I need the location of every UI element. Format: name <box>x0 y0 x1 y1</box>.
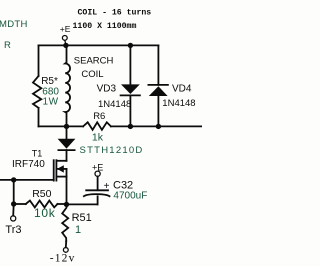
diode VD4 <box>149 86 168 96</box>
svg-text:VD4: VD4 <box>172 84 192 95</box>
diode VD3 <box>121 84 140 94</box>
svg-text:COIL - 16 turns: COIL - 16 turns <box>78 9 152 18</box>
svg-text:IRF740: IRF740 <box>12 159 45 170</box>
wire left branch upper <box>38 45 40 76</box>
node source junction <box>64 202 69 207</box>
svg-text:R6: R6 <box>93 111 105 122</box>
node top E junction <box>63 43 68 48</box>
wire left branch lower <box>38 108 40 127</box>
wire C32 top lead <box>97 176 99 190</box>
wire top bus <box>39 44 159 46</box>
diode STTH1210D cathode bar <box>58 149 74 151</box>
wire R50 left lead <box>14 203 26 205</box>
resistor R50 <box>26 201 58 208</box>
svg-text:COIL: COIL <box>81 69 103 80</box>
node gate junction <box>11 177 16 182</box>
transistor T1 drain tap <box>56 160 66 162</box>
terminal Tr3 <box>11 216 16 221</box>
svg-text:T1: T1 <box>32 148 43 158</box>
wire VD3 cathode <box>129 95 131 126</box>
svg-text:1100 X 1100mm: 1100 X 1100mm <box>73 22 137 31</box>
capacitor C32 top plate <box>86 189 108 191</box>
terminal +E top <box>62 36 67 41</box>
transistor T1 source tap <box>56 176 66 178</box>
svg-text:MDTH: MDTH <box>0 19 28 30</box>
capacitor C32 bottom plate <box>84 194 110 196</box>
wire VD4 anode <box>157 96 159 126</box>
wire Tr3 lead <box>12 204 15 216</box>
wire terminal to node <box>65 40 66 44</box>
svg-text:680: 680 <box>42 86 59 97</box>
terminal -12v <box>63 248 68 253</box>
wire R50 right lead <box>58 203 67 205</box>
svg-text:1N4148: 1N4148 <box>162 98 195 109</box>
svg-text:1N4148: 1N4148 <box>98 99 131 110</box>
node coil bottom junction <box>64 124 69 129</box>
wire STTH cathode to drain <box>66 150 68 161</box>
node VD3 top junction <box>128 43 133 48</box>
wire bottom bus left <box>39 125 84 127</box>
resistor R6 <box>83 122 111 130</box>
wire gate lead <box>0 179 54 181</box>
svg-text:R51: R51 <box>72 212 92 224</box>
wire gate branch down <box>13 180 15 204</box>
transistor T1 gate bar <box>53 160 55 180</box>
terminal +E cap <box>95 171 100 176</box>
svg-text:SEARCH: SEARCH <box>74 55 114 66</box>
transistor T1 arrow <box>57 165 64 172</box>
svg-text:Tr3: Tr3 <box>5 224 21 236</box>
wire C32 bottom lead <box>97 196 99 204</box>
svg-text:4700uF: 4700uF <box>113 190 147 201</box>
svg-text:1: 1 <box>75 224 81 236</box>
wire VD4 cathode <box>157 45 159 85</box>
wire bottom bus right <box>111 125 202 127</box>
diode VD3 cathode bar <box>121 94 140 96</box>
diode VD4 cathode bar <box>148 84 168 86</box>
wire VD3 anode <box>129 45 131 84</box>
svg-text:1W: 1W <box>43 97 59 108</box>
transistor T1 body tap <box>57 168 66 170</box>
node R50 left junction <box>11 201 16 206</box>
svg-text:1k: 1k <box>92 131 104 143</box>
node VD3 bottom junction <box>128 124 133 129</box>
node VD4 bottom junction <box>156 124 161 129</box>
transistor T1 channel bar <box>55 160 57 180</box>
resistor R51 <box>62 204 68 241</box>
svg-text:R: R <box>4 40 11 51</box>
wire minus12 lead <box>65 241 67 247</box>
svg-text:VD3: VD3 <box>97 83 117 94</box>
svg-text:+: + <box>104 181 110 192</box>
wire STTH anode <box>66 126 68 138</box>
wire source lead <box>66 169 68 205</box>
inductor L1 search coil <box>65 45 70 126</box>
wire source to C32 <box>67 203 98 205</box>
svg-text:+E: +E <box>92 162 103 172</box>
svg-text:10k: 10k <box>34 206 56 220</box>
svg-text:R50: R50 <box>32 188 51 200</box>
diode STTH1210D <box>58 139 76 149</box>
svg-text:-12v: -12v <box>50 253 76 265</box>
svg-text:+E: +E <box>60 24 71 34</box>
svg-text:STTH1210D: STTH1210D <box>80 145 144 156</box>
resistor R5 <box>33 76 41 108</box>
